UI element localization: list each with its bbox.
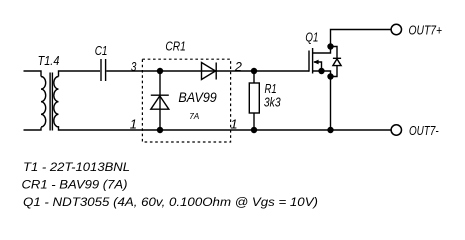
- svg-text:BAV99: BAV99: [178, 89, 217, 105]
- diode CR1-B horizontal: [202, 63, 216, 80]
- svg-text:3: 3: [131, 59, 137, 74]
- svg-text:2: 2: [234, 59, 243, 74]
- wire Q1 drain stub: [313, 47, 331, 54]
- transistor Q1 arrow: [313, 60, 318, 65]
- wire C1 to gate (top rail through CR1): [106, 70, 309, 72]
- svg-text:3k3: 3k3: [264, 94, 281, 109]
- wire primary bottom: [24, 127, 42, 130]
- svg-text:C1: C1: [95, 43, 108, 58]
- svg-text:CR1 - BAV99 (7A): CR1 - BAV99 (7A): [22, 180, 128, 192]
- node junction dot R1 bottom: [251, 127, 257, 133]
- wire R1 branch: [253, 71, 255, 83]
- node junction dot 2: [251, 68, 257, 74]
- svg-text:T1 - 22T-1013BNL: T1 - 22T-1013BNL: [23, 162, 130, 174]
- dashed package box CR1: [142, 59, 230, 142]
- svg-text:1: 1: [230, 116, 237, 131]
- transformer T1 primary winding: [41, 77, 46, 127]
- wire source down to bottom rail: [330, 77, 332, 131]
- node junction dot 3: [157, 68, 163, 74]
- wire secondary bottom rail: [59, 126, 391, 130]
- svg-text:OUT7-: OUT7-: [409, 124, 439, 138]
- diode CR1-A vertical: [151, 94, 169, 96]
- terminal OUT7-: [391, 125, 401, 135]
- wire R1 bottom: [253, 113, 255, 130]
- wire CR1 branch vertical: [159, 71, 161, 130]
- svg-text:T1.4: T1.4: [38, 53, 60, 68]
- transistor Q1 gate bar: [308, 51, 310, 72]
- capacitor C1: [100, 59, 102, 81]
- svg-text:1: 1: [130, 116, 137, 131]
- svg-text:CR1: CR1: [165, 38, 185, 53]
- svg-text:Q1: Q1: [305, 30, 318, 45]
- body diode D1: [333, 57, 341, 59]
- wire body diode top: [331, 47, 338, 59]
- node junction dot source/body: [318, 68, 324, 74]
- node junction dot 1 left: [157, 127, 163, 133]
- node junction dot drain: [327, 43, 333, 49]
- transformer T1 secondary winding: [54, 77, 59, 127]
- svg-text:Q1 - NDT3055 (4A, 60v, 0.100Oh: Q1 - NDT3055 (4A, 60v, 0.100Ohm @ Vgs = …: [23, 197, 318, 209]
- svg-text:OUT7+: OUT7+: [409, 23, 443, 37]
- node junction dot source/diode: [327, 73, 333, 79]
- wire Q1 body stub: [314, 62, 322, 71]
- node junction dot source rail: [327, 127, 333, 133]
- transformer core: [49, 73, 51, 131]
- wire body diode bottom to source: [331, 66, 338, 77]
- wire primary top: [24, 71, 42, 77]
- wire Q1 source stub: [313, 71, 331, 77]
- wire secondary top to C1: [59, 71, 101, 77]
- svg-text:7A: 7A: [189, 111, 199, 121]
- transistor Q1 channel bar: [312, 48, 314, 74]
- wire drain to top rail: [331, 30, 391, 47]
- terminal OUT7+: [391, 24, 401, 34]
- resistor R1 body: [249, 83, 259, 113]
